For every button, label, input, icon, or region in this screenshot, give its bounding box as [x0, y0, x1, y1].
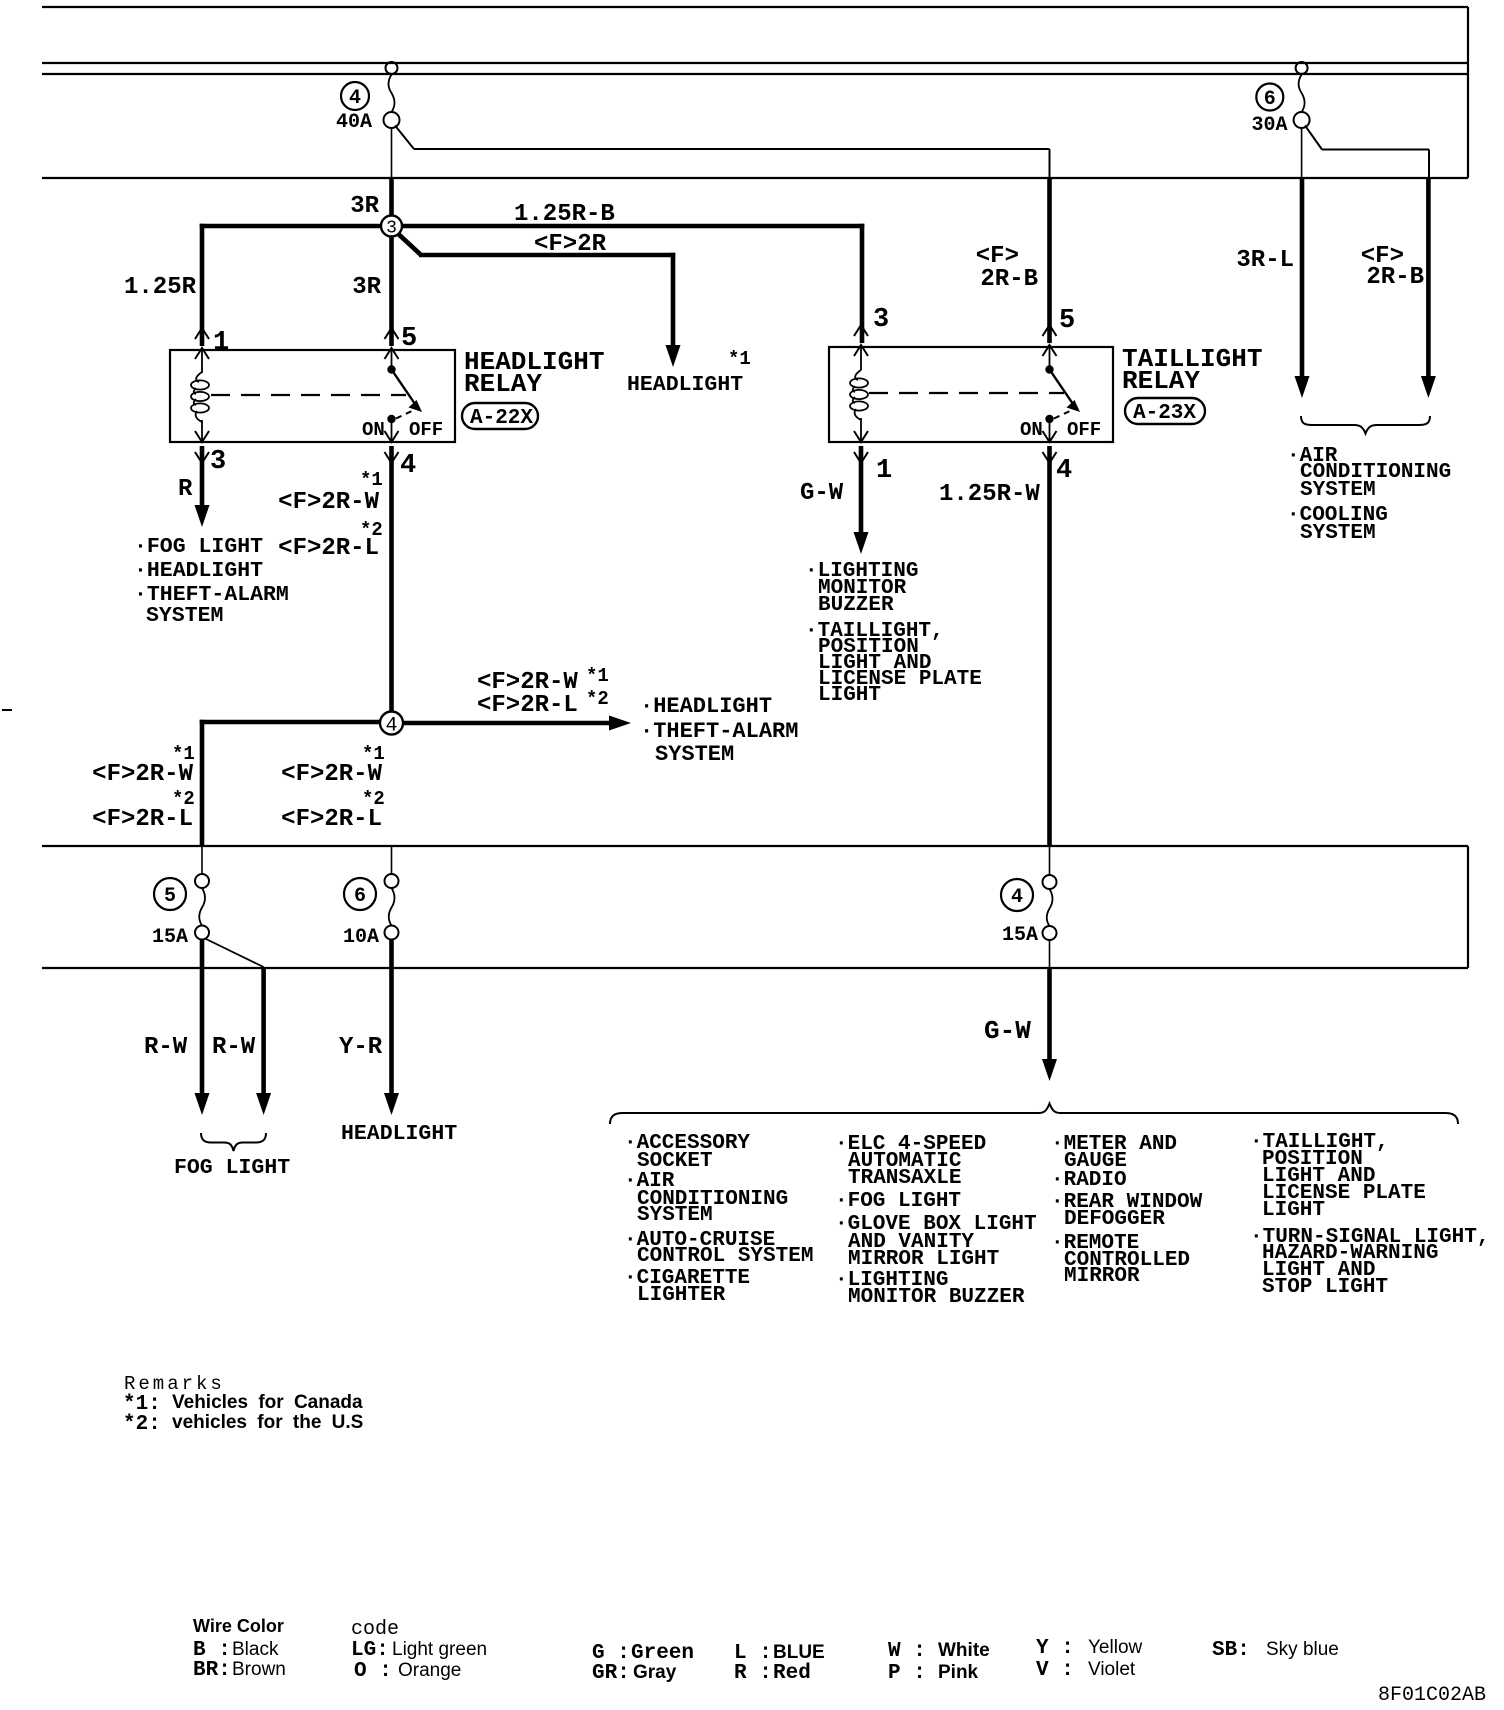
- svg-text:R :: R :: [734, 1662, 772, 1685]
- fuse 6 30A top circle: [1296, 62, 1308, 74]
- headlight relay switch lead: [391, 350, 393, 366]
- wire fuse4b to bus F: [1049, 940, 1051, 968]
- taillight relay coil lead top: [860, 347, 862, 370]
- fuse 5 15A lead from bus E: [201, 846, 203, 874]
- svg-text:LIGHTER: LIGHTER: [637, 1284, 726, 1307]
- svg-text:3: 3: [873, 305, 889, 335]
- svg-text:OFF: OFF: [1067, 419, 1101, 441]
- connector chevron headlight pin 1 upper: [195, 328, 209, 339]
- svg-text:8F01C02AB: 8F01C02AB: [1378, 1684, 1486, 1707]
- svg-text:1.25R: 1.25R: [124, 274, 197, 301]
- svg-text:code: code: [351, 1618, 399, 1641]
- wire node 4 left down to bus E: [200, 720, 205, 846]
- svg-text:MIRROR LIGHT: MIRROR LIGHT: [848, 1248, 999, 1271]
- taillight relay switch off dashed: [1054, 411, 1071, 419]
- wire battery bus line B: [42, 62, 1468, 64]
- fuse 6 30A element: [1299, 75, 1305, 113]
- svg-text:<F>2R-W: <F>2R-W: [92, 761, 193, 788]
- svg-text:·FOG LIGHT: ·FOG LIGHT: [134, 535, 263, 559]
- svg-text:1.25R-W: 1.25R-W: [939, 481, 1040, 508]
- wire fuse4 diagonal feed: [395, 126, 414, 150]
- svg-text:G-W: G-W: [800, 480, 844, 507]
- wire F2R-B right from bus D: [1426, 178, 1431, 378]
- fuse 6 30A bottom circle: [1294, 112, 1310, 128]
- wire F2R-B from bus D to taillight relay pin 5: [1047, 178, 1052, 343]
- connector chevron headlight pin 3 upper: [195, 431, 209, 442]
- svg-text:HEADLIGHT: HEADLIGHT: [627, 373, 743, 397]
- connector chevron headlight pin 4 upper: [385, 431, 399, 442]
- fuse 6 number circle: [1256, 84, 1283, 111]
- taillight relay dashed link: [869, 392, 1064, 394]
- svg-text:·FOG LIGHT: ·FOG LIGHT: [835, 1190, 961, 1213]
- svg-text:2R-B: 2R-B: [980, 266, 1038, 293]
- headlight relay switch pivot dot: [387, 365, 395, 373]
- svg-text:LIGHT: LIGHT: [818, 684, 881, 707]
- fuse 4 15A top circle: [1043, 875, 1057, 889]
- svg-text:OFF: OFF: [409, 419, 443, 441]
- svg-text:1: 1: [876, 456, 892, 486]
- svg-text:Light green: Light green: [392, 1639, 487, 1660]
- svg-text:Vehicles for Canada: Vehicles for Canada: [172, 1392, 363, 1413]
- svg-text:Wire Color: Wire Color: [193, 1616, 284, 1636]
- fuse 4 40A top circle: [386, 62, 398, 74]
- brace air conditioning group: [1301, 416, 1430, 434]
- svg-text:6: 6: [1264, 88, 1276, 111]
- wire headlight relay pin 3 output: [200, 446, 205, 507]
- svg-text:<F>2R-L: <F>2R-L: [477, 692, 578, 719]
- taillight relay switch arm: [1050, 370, 1074, 405]
- svg-text:RELAY: RELAY: [464, 369, 542, 399]
- taillight relay switch lead bottom: [1049, 421, 1051, 442]
- wire F2R horizontal: [419, 253, 675, 258]
- svg-text:15A: 15A: [1002, 924, 1038, 947]
- svg-text:LG:: LG:: [351, 1639, 389, 1662]
- wire 1.25R horizontal from node 3: [200, 224, 392, 229]
- taillight relay coil: [855, 370, 861, 380]
- svg-text:STOP LIGHT: STOP LIGHT: [1262, 1276, 1388, 1299]
- svg-text:<F>2R-L: <F>2R-L: [92, 806, 193, 833]
- arrowhead taillight relay pin 1: [854, 532, 869, 554]
- svg-text:2R-B: 2R-B: [1366, 264, 1424, 291]
- connector chevron taillight pin 1 upper: [854, 431, 868, 442]
- wire F2R diagonal from node 3: [394, 230, 421, 255]
- fuse 6 10A lead from bus E: [391, 846, 393, 874]
- svg-text:Pink: Pink: [938, 1662, 979, 1683]
- svg-text:30A: 30A: [1251, 114, 1287, 137]
- wire fuse6 diagonal feed: [1305, 126, 1322, 150]
- svg-text:TRANSAXLE: TRANSAXLE: [848, 1167, 961, 1190]
- wire fuse4 feed horizontal to taillight pin5: [414, 148, 1050, 150]
- svg-text:3R: 3R: [352, 274, 381, 301]
- wire R-W left arrow shaft: [200, 939, 205, 1096]
- svg-text:*2:: *2:: [123, 1413, 161, 1436]
- arrowhead node 4 right: [609, 716, 631, 731]
- headlight relay coil: [196, 372, 202, 382]
- svg-text:Y :: Y :: [1036, 1637, 1086, 1660]
- fuse 4 15A lead from bus E: [1049, 846, 1051, 876]
- svg-text:<F>2R-L: <F>2R-L: [281, 806, 382, 833]
- fuse 6 10A top circle: [385, 874, 399, 888]
- connector chevron taillight pin 4 upper: [1043, 431, 1057, 442]
- wire bus line D: [42, 177, 1468, 179]
- wire F2R down to headlight arrow: [671, 253, 676, 348]
- svg-text:·HEADLIGHT: ·HEADLIGHT: [134, 559, 263, 583]
- headlight relay switch off dashed: [396, 411, 413, 419]
- wire right border upper: [1467, 7, 1469, 178]
- wire fuse4 to bus D: [391, 128, 393, 178]
- svg-text:GR:: GR:: [592, 1662, 630, 1685]
- headlight relay coil lead top: [201, 350, 203, 373]
- wire top bus line: [42, 6, 1468, 8]
- headlight relay ON contact dot: [387, 415, 395, 423]
- wire taillight relay pin 4 output 1.25R-W: [1047, 446, 1052, 846]
- fuse 4 15A element: [1047, 889, 1053, 926]
- taillight relay switch arm arrowhead: [1067, 400, 1081, 412]
- svg-text:1: 1: [213, 328, 229, 358]
- wire mid bus line E: [42, 845, 1468, 847]
- fuse 5 number circle: [154, 878, 186, 910]
- node 4 junction circle: [380, 712, 403, 738]
- arrowhead R-W right: [256, 1093, 271, 1115]
- svg-text:O :: O :: [354, 1660, 392, 1683]
- wire F2R-W from headlight relay pin 4 to node 4: [389, 446, 394, 723]
- svg-text:CONTROL SYSTEM: CONTROL SYSTEM: [637, 1245, 813, 1268]
- svg-text:SYSTEM: SYSTEM: [655, 742, 734, 767]
- taillight relay switch lead: [1049, 347, 1051, 366]
- node 3 junction circle: [381, 216, 402, 239]
- fuse 5 15A bottom circle: [195, 926, 209, 940]
- arrowhead headlight F2R: [666, 345, 681, 367]
- svg-text:<F>2R-W: <F>2R-W: [281, 761, 382, 788]
- wire 1.25R-B down to taillight relay pin 3: [860, 224, 865, 343]
- svg-text:FOG LIGHT: FOG LIGHT: [174, 1156, 290, 1180]
- connector chevron taillight pin 5 lower: [1043, 345, 1057, 356]
- svg-text:BLUE: BLUE: [773, 1642, 825, 1663]
- svg-text:1.25R-B: 1.25R-B: [514, 201, 615, 228]
- connector chevron headlight pin 5 upper: [385, 328, 399, 339]
- arrowhead F2R-B right: [1421, 376, 1436, 398]
- svg-text:·HEADLIGHT: ·HEADLIGHT: [640, 694, 772, 719]
- svg-text:*2: *2: [586, 688, 609, 710]
- svg-text:·RADIO: ·RADIO: [1051, 1169, 1127, 1192]
- svg-text:15A: 15A: [152, 926, 188, 949]
- wire fuse6 feed corner down: [1428, 150, 1430, 179]
- svg-text:3: 3: [210, 447, 226, 477]
- wire 3R-L from bus D: [1300, 178, 1305, 378]
- headlight relay coil lead bottom: [201, 420, 203, 442]
- fuse 4 number circle: [341, 82, 369, 110]
- fuse 6 10A bottom circle: [385, 926, 399, 940]
- svg-text:4: 4: [400, 451, 416, 481]
- taillight relay coil lead bottom: [860, 418, 862, 442]
- svg-text:5: 5: [401, 324, 417, 354]
- arrowhead G-W bottom: [1042, 1059, 1057, 1081]
- svg-text:5: 5: [1059, 306, 1075, 336]
- fuse 4 40A element: [389, 75, 395, 113]
- svg-text:R-W: R-W: [144, 1034, 188, 1061]
- headlight relay switch arm: [392, 370, 416, 405]
- connector chevron taillight pin 3 lower: [854, 345, 868, 356]
- connector chevron headlight pin 3 lower: [195, 452, 209, 463]
- svg-text:SYSTEM: SYSTEM: [637, 1204, 713, 1227]
- brace fog light group: [201, 1133, 266, 1151]
- arrowhead R-W left: [195, 1093, 210, 1115]
- relay A-23X connector stadium: [1125, 398, 1205, 424]
- fuse 5 15A element: [199, 888, 205, 926]
- svg-text:Black: Black: [232, 1639, 279, 1660]
- svg-text:SB:: SB:: [1212, 1639, 1262, 1662]
- svg-text:A-22X: A-22X: [470, 407, 533, 430]
- svg-text:Violet: Violet: [1088, 1659, 1136, 1680]
- svg-text:4: 4: [349, 87, 361, 110]
- svg-text:<F>2R: <F>2R: [534, 231, 607, 258]
- svg-text:4: 4: [385, 715, 397, 738]
- svg-text:ON: ON: [362, 419, 385, 441]
- brace G-W distribution group: [610, 1104, 1458, 1125]
- connector chevron headlight pin 4 lower: [385, 452, 399, 463]
- svg-text:<F>2R-W: <F>2R-W: [278, 489, 379, 516]
- wire fuse6 to bus D: [1301, 128, 1303, 178]
- svg-text:SYSTEM: SYSTEM: [146, 604, 223, 628]
- wire fuse4 feed corner down: [1049, 149, 1051, 178]
- wire 3R from node 3 to headlight relay pin 5: [389, 226, 394, 346]
- svg-text:R-W: R-W: [212, 1034, 256, 1061]
- svg-text:3R-L: 3R-L: [1236, 247, 1294, 274]
- svg-text:Red: Red: [773, 1662, 811, 1685]
- headlight relay switch arm arrowhead: [409, 400, 423, 412]
- svg-text:A-23X: A-23X: [1133, 402, 1196, 425]
- wire left margin tick: [2, 709, 12, 711]
- svg-text:<F>2R-L: <F>2R-L: [278, 535, 379, 562]
- svg-text:vehicles for the U.S: vehicles for the U.S: [172, 1412, 363, 1433]
- wire 1.25R down to headlight relay pin 1: [200, 224, 205, 346]
- wire R-W right arrow shaft: [261, 968, 266, 1096]
- svg-text:Sky blue: Sky blue: [1266, 1639, 1339, 1660]
- wire node 4 horizontal left: [200, 720, 392, 725]
- wire Y-R arrow shaft: [389, 939, 394, 1096]
- svg-text:V :: V :: [1036, 1659, 1086, 1682]
- svg-text:DEFOGGER: DEFOGGER: [1064, 1208, 1165, 1231]
- connector chevron taillight pin 3 upper: [854, 325, 868, 336]
- svg-text:P :: P :: [888, 1662, 938, 1685]
- fuse 5 15A top circle: [195, 874, 209, 888]
- wire 3R from bus D to node 3: [389, 178, 394, 226]
- svg-text:SYSTEM: SYSTEM: [1300, 479, 1376, 502]
- svg-text:5: 5: [164, 885, 176, 908]
- wire node 4 arrow right: [392, 721, 613, 726]
- svg-text:LIGHT: LIGHT: [1262, 1199, 1325, 1222]
- connector chevron taillight pin 5 upper: [1043, 325, 1057, 336]
- wire battery bus line C: [42, 73, 1468, 75]
- svg-text:Gray: Gray: [633, 1662, 677, 1683]
- fuse 6b number circle: [344, 878, 376, 910]
- svg-text:3: 3: [386, 219, 397, 239]
- svg-text:MIRROR: MIRROR: [1064, 1265, 1140, 1288]
- fuse 4 40A bottom circle: [384, 112, 400, 128]
- svg-text:10A: 10A: [343, 926, 379, 949]
- svg-text:4: 4: [1056, 456, 1072, 486]
- arrowhead 3R-L: [1295, 376, 1310, 398]
- svg-text:Y-R: Y-R: [339, 1034, 383, 1061]
- svg-text:HEADLIGHT: HEADLIGHT: [341, 1122, 457, 1146]
- taillight relay switch pivot dot: [1045, 365, 1053, 373]
- svg-text:ON: ON: [1020, 419, 1043, 441]
- svg-text:MONITOR BUZZER: MONITOR BUZZER: [848, 1286, 1025, 1309]
- headlight relay switch lead bottom: [391, 421, 393, 442]
- svg-text:W :: W :: [888, 1640, 938, 1663]
- relay TAILLIGHT RELAY A-23X box: [829, 347, 1113, 442]
- svg-text:SYSTEM: SYSTEM: [1300, 522, 1376, 545]
- svg-text:Brown: Brown: [232, 1659, 286, 1680]
- arrowhead Y-R: [384, 1093, 399, 1115]
- svg-text:G-W: G-W: [984, 1016, 1031, 1046]
- svg-text:3R: 3R: [350, 193, 379, 220]
- fuse 4 15A bottom circle: [1043, 926, 1057, 940]
- arrowhead headlight relay pin 3: [195, 505, 210, 527]
- wire 1.25R-B from node 3 to taillight branch: [392, 224, 865, 229]
- connector chevron headlight pin 1 lower: [195, 348, 209, 359]
- headlight relay dashed link: [211, 394, 406, 396]
- svg-text:White: White: [938, 1640, 990, 1661]
- taillight relay ON contact dot: [1045, 415, 1053, 423]
- svg-text:RELAY: RELAY: [1122, 366, 1200, 396]
- wire fuse6 feed horizontal: [1322, 149, 1429, 151]
- wire fuse5 diagonal to bus F: [205, 939, 264, 968]
- wire mid bus line F: [42, 967, 1468, 969]
- wire G-W bottom arrow shaft: [1047, 968, 1052, 1062]
- relay A-22X connector stadium: [462, 403, 538, 429]
- relay HEADLIGHT RELAY A-22X box: [170, 350, 455, 442]
- connector chevron taillight pin 1 lower: [854, 452, 868, 463]
- svg-text:Orange: Orange: [398, 1660, 461, 1681]
- svg-text:6: 6: [354, 885, 366, 908]
- svg-text:4: 4: [1011, 886, 1023, 909]
- wire right border lower: [1467, 846, 1469, 968]
- fuse 4b number circle: [1001, 879, 1033, 911]
- svg-text:*1: *1: [360, 469, 383, 491]
- svg-text:40A: 40A: [336, 111, 372, 134]
- svg-text:*1: *1: [728, 348, 751, 370]
- connector chevron headlight pin 5 lower: [385, 348, 399, 359]
- wire taillight relay pin 1 output G-W: [859, 446, 864, 535]
- svg-text:*1: *1: [586, 665, 609, 687]
- svg-text:BR:: BR:: [193, 1659, 231, 1682]
- svg-text:·THEFT-ALARM: ·THEFT-ALARM: [640, 719, 798, 744]
- fuse 6 10A element: [389, 888, 395, 926]
- svg-text:Yellow: Yellow: [1088, 1637, 1143, 1658]
- svg-text:R: R: [178, 476, 193, 503]
- svg-text:BUZZER: BUZZER: [818, 594, 894, 617]
- connector chevron taillight pin 4 lower: [1043, 452, 1057, 463]
